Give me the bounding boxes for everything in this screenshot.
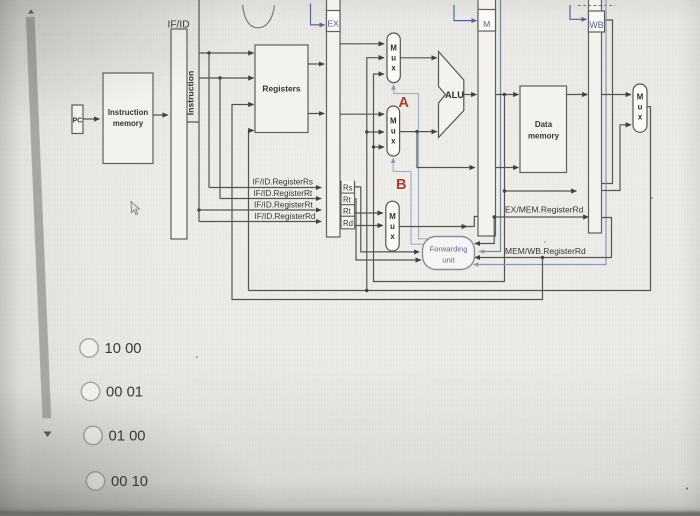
wire destination mux output to EX/MEM — [399, 226, 467, 228]
node MEM/WB.RegisterRd branch — [541, 256, 544, 259]
WB control stub — [602, 20, 613, 184]
scrollbar down-arrow — [44, 432, 52, 438]
node EX/MEM forward to mux B — [372, 145, 375, 148]
photo speck 3 — [544, 241, 546, 243]
wire data memory to MEM/WB — [567, 94, 588, 96]
radio option 2 — [81, 382, 99, 400]
node write-back forward branch — [365, 289, 368, 292]
scrollbar up-arrow — [28, 10, 34, 14]
wire ALU result to data memory — [496, 94, 519, 96]
wire PC to instruction memory — [83, 118, 100, 120]
node rs branch — [207, 51, 210, 54]
ID/EX EX control box — [327, 11, 341, 32]
wire ALU result pass-through down — [505, 95, 577, 192]
IF/ID pipeline register — [171, 29, 187, 239]
radio option 3 — [84, 426, 102, 444]
EX/MEM M control box — [478, 10, 496, 32]
wire rs down — [208, 53, 210, 188]
wire IF/ID.RegisterRs row — [209, 187, 321, 189]
node ALU result tap — [503, 93, 506, 96]
wire EX/MEM forward riser — [374, 74, 505, 282]
wire MEM/WB.RegisterRd to write register — [232, 258, 543, 300]
wire ALU result to EX/MEM — [464, 94, 477, 96]
mouse cursor — [131, 202, 139, 215]
node WB forward to mux B — [365, 130, 368, 133]
control line alongside MEM/WB — [474, 0, 607, 265]
photo speck 2 — [651, 197, 653, 199]
wire IF/ID.RegisterRd row — [199, 221, 321, 223]
ID/EX Rt field box 2 — [341, 205, 355, 217]
ID/EX Rd field box — [341, 216, 355, 229]
data memory — [520, 86, 567, 173]
wire MEM/WB.RegisterRd stub — [475, 218, 612, 258]
wire store data to EX/MEM — [417, 132, 475, 168]
wire IF/ID.RegisterRt row — [220, 198, 321, 200]
wire MEM/WB read data to mux — [602, 94, 632, 96]
wire write register riser — [232, 105, 254, 301]
curved wire remnant (U) — [243, 5, 275, 28]
wire Rt to destination mux — [355, 212, 383, 214]
wire EX/MEM.RegisterRd to MEM/WB — [496, 216, 589, 218]
wire ForwardB select — [393, 158, 424, 244]
wire read register 1 — [199, 52, 254, 54]
wire ID/EX read1 to mux A — [340, 43, 384, 45]
wire read data 1 — [308, 63, 324, 65]
wire ALU pass to mux input 2 — [602, 125, 632, 191]
node rt branch — [218, 76, 221, 79]
wire write data riser — [249, 131, 254, 291]
wire IF/ID.RegisterRt row 2 — [199, 209, 321, 211]
MEM/WB WB control box — [589, 11, 605, 32]
wire rt down — [219, 78, 221, 199]
wire WB forward riser — [367, 58, 384, 291]
control wire into WB — [570, 5, 587, 19]
node rt2 branch — [197, 208, 200, 211]
EX/MEM pipeline register — [478, 0, 496, 236]
wire Rs to forwarding unit — [355, 187, 420, 252]
node EX/MEM.RegisterRd branch — [493, 215, 496, 218]
control wire into EX — [311, 4, 325, 25]
wire ID/EX read2 to mux B — [340, 113, 384, 115]
wire instruction memory to IF/ID — [153, 114, 168, 116]
wire read data 2 — [308, 113, 324, 115]
wire WB forward to mux B — [367, 131, 384, 133]
destination register mux — [386, 201, 399, 251]
wire mux B to ALU — [400, 131, 437, 133]
node EX/MEM forward tap — [503, 189, 506, 192]
mux B — [387, 106, 400, 156]
wire mux A to ALU — [400, 57, 437, 59]
wire EX/MEM forward to mux B — [374, 146, 385, 148]
registers — [255, 45, 308, 133]
PC box — [72, 105, 83, 134]
wire EX/MEM.RegisterRd to forwarding unit — [475, 217, 494, 244]
mux A — [387, 33, 400, 83]
radio option 4 — [86, 472, 104, 490]
ID/EX Rt field box — [341, 193, 355, 205]
scrollbar thumb — [26, 17, 51, 418]
ID/EX pipeline register — [327, 0, 341, 237]
ALU — [439, 52, 464, 138]
instruction bus stub from IF/ID — [187, 121, 199, 123]
wire store data EX/MEM to data memory — [496, 167, 519, 169]
ID/EX Rs field box — [341, 181, 355, 193]
wire Rd to destination mux — [355, 225, 383, 227]
wire read register 2 — [199, 77, 254, 79]
instruction memory — [103, 73, 153, 164]
forwarding unit — [423, 237, 475, 270]
photo speck 1 — [196, 356, 198, 358]
wire Rt to forwarding unit — [355, 199, 421, 260]
instruction bus vertical — [198, 0, 200, 222]
radio option 1 — [80, 339, 98, 357]
wire ForwardA select — [394, 85, 430, 239]
dashed remnant — [578, 5, 615, 7]
MEM/WB pipeline register — [589, 0, 602, 233]
photo speck 4 — [686, 487, 688, 489]
node store data branch — [415, 130, 418, 133]
wire write-back mux return — [249, 107, 651, 291]
control line alongside EX/MEM — [479, 0, 500, 252]
write-back mux — [633, 84, 647, 132]
control wire into M — [454, 5, 477, 21]
